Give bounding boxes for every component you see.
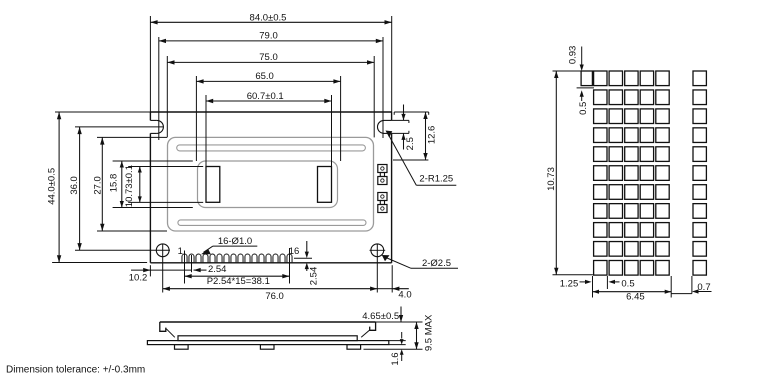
svg-text:16-Ø1.0: 16-Ø1.0: [218, 236, 252, 247]
svg-text:0.93: 0.93: [567, 46, 578, 65]
LCD panel bezel: [168, 137, 374, 231]
dim 2.5: [392, 105, 416, 151]
extension lines bottom: [150, 244, 392, 293]
dim P2.54*15=38.1: [185, 274, 290, 287]
dim 79.0: [159, 31, 383, 140]
dim 76.0: [163, 287, 378, 302]
side view glass: [178, 336, 357, 341]
svg-text:10.73±0.1: 10.73±0.1: [124, 165, 135, 207]
dim 0.93: [564, 46, 584, 71]
display window: [198, 161, 338, 208]
svg-text:84.0±0.5: 84.0±0.5: [250, 12, 287, 23]
dim 27.0: [93, 137, 167, 231]
svg-text:76.0: 76.0: [265, 291, 284, 302]
dim 4.0: [377, 287, 411, 301]
backlight pads: [378, 165, 387, 213]
mounting hole left: [156, 244, 169, 257]
side view tabs: [175, 345, 361, 350]
svg-text:4.65±0.5: 4.65±0.5: [362, 311, 399, 322]
dim 0.7: [671, 276, 711, 294]
dim 2.54 vertical: [294, 241, 319, 285]
svg-text:2.54: 2.54: [308, 267, 319, 286]
character cell left: [206, 167, 220, 203]
svg-text:1.6: 1.6: [390, 352, 401, 365]
svg-text:P2.54*15=38.1: P2.54*15=38.1: [207, 276, 270, 287]
svg-text:4.0: 4.0: [398, 289, 411, 300]
svg-text:36.0: 36.0: [69, 176, 80, 195]
svg-text:2-R1.25: 2-R1.25: [419, 174, 453, 185]
dim 6.45: [593, 276, 672, 302]
svg-text:10.2: 10.2: [129, 273, 148, 284]
gap dot top-left: [581, 71, 592, 86]
dim 36.0: [69, 127, 170, 250]
svg-text:2-Ø2.5: 2-Ø2.5: [422, 258, 451, 269]
side view pcb: [147, 341, 388, 345]
PCB outline: [150, 112, 391, 263]
character cell right: [318, 167, 332, 203]
svg-text:65.0: 65.0: [255, 71, 274, 82]
svg-text:2.5: 2.5: [405, 137, 416, 150]
svg-text:12.6: 12.6: [426, 126, 437, 145]
svg-text:0.7: 0.7: [697, 282, 710, 293]
dim 1.25: [560, 276, 593, 298]
side view frame: [160, 322, 376, 337]
dim 4.65: [362, 307, 422, 323]
dim 10.73 grid: [546, 71, 593, 275]
svg-text:16: 16: [289, 246, 300, 257]
svg-text:9.5 MAX: 9.5 MAX: [424, 314, 435, 351]
pin row 16 holes: [182, 254, 292, 262]
svg-text:15.8: 15.8: [109, 174, 120, 193]
bezel slot bottom: [178, 220, 366, 226]
corner notch right: [378, 120, 392, 133]
svg-text:60.7±0.1: 60.7±0.1: [247, 91, 284, 102]
svg-text:44.0±0.5: 44.0±0.5: [46, 168, 57, 205]
dim 75.0: [167, 52, 374, 137]
dim 9.5 MAX: [364, 314, 435, 351]
corner notch left: [150, 120, 163, 133]
svg-text:1.25: 1.25: [560, 279, 579, 290]
svg-text:1: 1: [178, 246, 183, 257]
dim 15.8: [109, 161, 193, 208]
svg-text:Dimension tolerance: +/-0.3mm: Dimension tolerance: +/-0.3mm: [6, 365, 145, 376]
svg-text:75.0: 75.0: [259, 52, 278, 63]
svg-text:10.73: 10.73: [546, 167, 557, 191]
label 2-R1.25: [386, 131, 457, 186]
dim 0.5 bottom: [607, 276, 634, 290]
next character column: [693, 71, 706, 275]
svg-text:2.54: 2.54: [208, 264, 227, 275]
dim 10.2: [129, 268, 192, 284]
dim 44.0: [46, 112, 150, 263]
dim 65.0: [196, 71, 340, 161]
dim 12.6: [393, 112, 437, 160]
svg-text:27.0: 27.0: [93, 176, 104, 195]
dim 2.54 pitch: [194, 264, 227, 275]
label 2-O2.5: [382, 255, 458, 269]
mounting hole right: [370, 244, 386, 257]
svg-text:0.5: 0.5: [621, 279, 634, 290]
label 16-O1.0: [201, 236, 257, 254]
dim 1.6: [389, 332, 406, 366]
bezel slot top: [177, 145, 366, 151]
dot matrix grid 5x11: [594, 71, 670, 275]
svg-text:0.5: 0.5: [578, 102, 589, 115]
svg-text:6.45: 6.45: [626, 291, 645, 302]
dim 60.7: [206, 91, 332, 167]
dim 0.5 top: [577, 88, 594, 115]
svg-text:79.0: 79.0: [259, 31, 278, 42]
dim 10.73: [124, 165, 203, 207]
dim 84.0: [150, 12, 391, 112]
